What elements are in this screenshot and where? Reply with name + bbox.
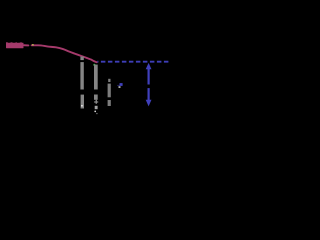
yellow marker dot on curve [32, 44, 34, 46]
gray glyph crossbar below line B [94, 101, 98, 102]
gray dashed vertical line C (x=109) [108, 79, 111, 106]
tiny blue label near arrow [120, 83, 123, 86]
blue double arrow: lower shaft [148, 88, 150, 100]
blue double arrow: top head [146, 63, 152, 69]
gray dashed vertical line A (x=80.7) [80, 57, 84, 109]
faint gray dot below line B [96, 113, 97, 114]
pink curve main [32, 45, 97, 62]
white sub-label below blue label [119, 86, 121, 88]
gray glyph stem below line B [96, 100, 97, 104]
pink curve segment at start [24, 44, 28, 46]
white dot below line B [94, 111, 96, 113]
green marker dot at curve end [93, 64, 95, 66]
blue dashed plateau line [97, 61, 168, 63]
pink curve label blob [6, 42, 24, 48]
gray square glyph below line B [95, 106, 98, 109]
faint tail of blue label [117, 85, 119, 86]
gray dashed vertical line B (x=96) [94, 65, 98, 100]
blue double arrow: upper shaft [148, 69, 150, 85]
white tick dot on line A [81, 105, 83, 107]
blue double arrow: bottom head [146, 100, 152, 107]
